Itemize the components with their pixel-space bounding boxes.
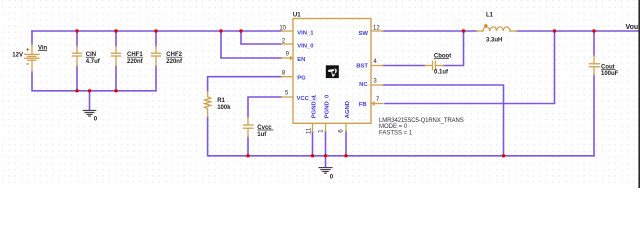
svg-text:MODE = 0: MODE = 0 [379,124,408,130]
svg-text:100uF: 100uF [601,71,619,77]
svg-text:FASTSS = 1: FASTSS = 1 [379,130,413,136]
svg-text:SW: SW [359,31,369,37]
svg-text:VIN_1: VIN_1 [297,31,314,37]
svg-text:12V: 12V [12,52,23,58]
svg-text:4.7uf: 4.7uf [86,59,101,65]
svg-text:AGND: AGND [345,101,351,118]
svg-text:VIN_0: VIN_0 [297,43,314,49]
svg-text:PGND_0: PGND_0 [325,94,331,118]
svg-text:EN: EN [297,57,305,63]
svg-text:3.3uH: 3.3uH [486,37,502,43]
svg-text:1uf: 1uf [257,132,267,138]
svg-text:12: 12 [373,26,380,32]
svg-text:100k: 100k [217,105,231,111]
svg-text:220nf: 220nf [127,59,144,65]
svg-text:NC: NC [359,82,368,88]
svg-text:FB: FB [359,102,367,108]
svg-text:Vout: Vout [626,24,640,31]
svg-text:10: 10 [279,26,286,32]
svg-text:PGND_1: PGND_1 [312,94,318,118]
svg-text:BST: BST [356,63,368,69]
svg-text:220nf: 220nf [166,59,183,65]
svg-text:L1: L1 [486,12,494,18]
svg-text:U1: U1 [293,12,301,18]
svg-text:11: 11 [307,127,313,134]
svg-text:PG: PG [297,76,306,82]
svg-text:0.1uf: 0.1uf [434,69,449,75]
svg-text:R1: R1 [217,98,225,104]
